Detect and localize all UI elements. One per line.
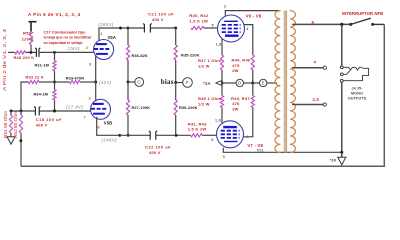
svg-text:7: 7 [84,115,86,119]
svg-text:400 V: 400 V [36,122,48,127]
node R52 bottom [19,139,22,142]
wire jack sleeve to ground [341,82,343,157]
wire V6 screen pin4 [244,25,253,55]
secondary tap 4 ohm wire [292,67,323,69]
svg-text:2,5: 2,5 [313,97,320,102]
resistor R47 1 Ohm [220,55,223,70]
svg-text:C18 100 uF: C18 100 uF [36,117,62,122]
transformer T1 primary winding [275,11,280,153]
wire V7 plate to transformer/ground bus [223,148,341,153]
wire V6 plate to transformer [225,11,280,16]
svg-text:C21 100 uF: C21 100 uF [148,12,174,17]
svg-text:(280V): (280V) [98,22,114,27]
ground (left) [7,137,15,145]
resistor R21-1M [54,52,56,60]
node top of R36 column [119,27,122,30]
svg-text:C17 Condensador tipo: C17 Condensador tipo [44,30,87,34]
resistor R32 22K [21,82,28,111]
svg-text:R44, R46: R44, R46 [232,58,251,63]
resistor R48 [8,51,15,53]
node top of R35 column [174,27,177,30]
svg-text:A Pin 2 de V1, 2, 3, 4: A Pin 2 de V1, 2, 3, 4 [2,28,7,91]
resistor R36-82K [127,28,129,45]
svg-text:R52 80 Ohm: R52 80 Ohm [13,110,18,138]
test point E [253,82,260,84]
resistor R40,R42 grid stopper [191,26,204,29]
svg-text:J4 J5-: J4 J5- [351,86,363,90]
secondary tap 2.5 ohm wire [292,104,323,106]
wire V5B top [95,82,97,102]
svg-text:400 V: 400 V [149,150,161,155]
capacitor C21 [128,27,144,29]
transformer core [284,11,286,153]
svg-text:F: F [186,80,189,85]
svg-text:8: 8 [312,20,315,25]
node screen junction [251,82,254,85]
svg-text:R33-470R: R33-470R [66,75,85,80]
svg-text:R51 56 Ohm: R51 56 Ohm [3,110,8,138]
svg-text:MONO: MONO [351,91,363,95]
svg-text:R45 1 Ohm: R45 1 Ohm [198,96,221,101]
svg-text:V7 - V8: V7 - V8 [247,143,263,148]
svg-text:R36-82K: R36-82K [132,53,148,58]
terminal to pin 6 (T bar) [29,22,37,32]
svg-text:A Pin 6 de V1, 2, 3, 4: A Pin 6 de V1, 2, 3, 4 [28,12,81,17]
wire V6 cathode [221,39,223,55]
svg-text:R21-1M: R21-1M [35,63,49,68]
svg-text:R45, R47: R45, R47 [231,96,250,101]
capacitor C18 [34,107,40,116]
svg-text:1/2 W: 1/2 W [198,102,210,107]
tube V5B [91,99,111,119]
svg-text:R50: R50 [23,31,32,36]
svg-text:2: 2 [86,46,88,50]
tube V6 (pentode) [218,15,245,42]
svg-text:OUTPUTS: OUTPUTS [348,96,367,100]
svg-text:*3A: *3A [203,81,211,86]
svg-text:V6 - V8: V6 - V8 [246,14,262,19]
node 3A with off-page arrow [221,82,224,85]
wire V5A plate to 280V rail [99,28,128,41]
resistor R34-1M [53,81,56,84]
transformer T1 secondary winding [290,11,295,153]
svg-text:D: D [238,81,241,86]
svg-text:470: 470 [232,63,240,68]
tube V5A [94,40,114,60]
test point D [222,82,236,84]
resistor R51 56 Ohm [10,111,12,115]
resistor R27-100K [127,82,129,100]
svg-text:V5B: V5B [104,120,112,125]
svg-text:R48 220 K: R48 220 K [14,55,35,60]
test point F [174,81,177,84]
svg-text:R32 22 K: R32 22 K [26,75,44,80]
resistor R50 [29,32,32,45]
resistor R52 80 Ohm [20,111,22,115]
svg-text:V5A: V5A [108,35,116,40]
node V5A cathode / V5B junction (42V) [94,81,97,84]
svg-text:3: 3 [89,97,91,101]
connector J4 J5 jack [340,66,343,69]
wire C22 to R41 [156,134,191,136]
svg-text:C22 100 uF: C22 100 uF [145,145,171,150]
svg-text:su capacidad ni voltaje: su capacidad ni voltaje [44,41,83,45]
svg-text:1,5 K 1W: 1,5 K 1W [188,127,207,132]
wire V5B plate to 249V rail [97,117,120,136]
svg-text:3: 3 [224,5,226,9]
capacitor C22 [149,131,157,140]
svg-text:C: C [137,80,141,85]
svg-text:220 K: 220 K [22,37,34,42]
svg-text:1,8: 1,8 [216,43,222,47]
wire V5A cathode [95,56,97,82]
resistor R39-220K [175,83,177,101]
svg-text:R41, R43: R41, R43 [188,121,207,126]
node jack tee on 8 ohm tap [340,23,343,26]
svg-text:1,8: 1,8 [215,119,221,123]
ground (right, *20) [338,157,346,165]
svg-text:400 V: 400 V [152,17,164,22]
svg-text:lenteja que no se identificar: lenteja que no se identificar [44,36,93,40]
svg-text:2W: 2W [232,68,239,73]
svg-text:6: 6 [98,126,100,130]
svg-text:R34-1M: R34-1M [34,91,48,96]
svg-text:R47 1 Ohm: R47 1 Ohm [198,58,221,63]
svg-text:5: 5 [211,138,213,142]
svg-text:(26V): (26V) [68,46,81,51]
capacitor C17 [35,48,40,57]
svg-text:4: 4 [314,60,317,65]
resistor R33-470R [55,81,70,83]
test point C [127,81,130,84]
svg-text:1,5 K 1W: 1,5 K 1W [189,18,208,23]
svg-text:(249V): (249V) [102,138,118,143]
tube V7 (pentode) [217,121,244,148]
svg-text:2W: 2W [232,106,239,111]
node at R21 top [53,51,56,54]
wire C17 to V5A grid [39,51,94,53]
svg-text:8: 8 [89,63,91,67]
wire 249V rail to C22 [120,134,150,136]
svg-text:(27.4V): (27.4V) [66,105,83,110]
svg-text:T#1: T#1 [257,149,264,153]
svg-text:R40, R42: R40, R42 [189,13,208,18]
svg-text:(42V): (42V) [99,80,112,85]
svg-text:5: 5 [212,24,214,28]
svg-text:bias: bias [161,78,174,86]
resistor R44 (screen) [251,55,254,70]
svg-text:R27-100K: R27-100K [132,105,151,110]
resistor R45 1 Ohm [221,83,223,96]
node R48/R50 junction [30,51,33,54]
svg-text:1/2 W: 1/2 W [198,63,210,68]
NFB feedback loop wire (right edge and bottom bus) [21,24,384,166]
wire grid line V5B (27.4V) [11,110,35,112]
svg-text:R39-220K: R39-220K [179,105,198,110]
svg-text:INTERRUPTOR NFB: INTERRUPTOR NFB [342,11,383,16]
svg-text:470: 470 [232,101,240,106]
svg-text:3: 3 [223,155,225,159]
secondary tap 8 ohm wire [292,23,351,25]
wire to output jack [341,24,343,66]
svg-text:*20: *20 [330,157,337,162]
svg-text:E: E [262,81,265,86]
svg-text:1: 1 [100,32,102,36]
resistor R46 (screen) [252,83,254,96]
resistor R35-220K [175,28,177,45]
svg-text:R35-220K: R35-220K [181,53,200,58]
resistor R41,R43 grid stopper [191,134,203,137]
